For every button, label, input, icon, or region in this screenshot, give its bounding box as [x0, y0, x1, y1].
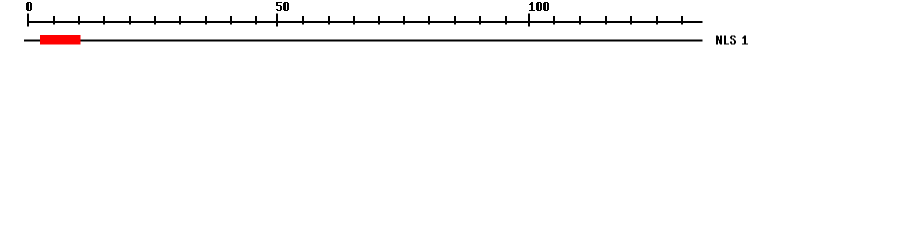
label 0 — [26, 2, 32, 11]
ruler line — [28, 21, 703, 23]
label NLS 1 — [716, 36, 748, 45]
sequence line — [24, 39, 703, 41]
major tick 0 — [27, 14, 29, 27]
major tick 50 — [276, 14, 278, 27]
major tick 100 — [528, 14, 530, 27]
feature NLS 1 red box (residues ~3-10) — [40, 35, 81, 44]
minor ticks every 5 aa — [53, 16, 683, 25]
label 50 — [276, 2, 289, 11]
background — [0, 0, 900, 58]
label 100 — [529, 2, 549, 11]
